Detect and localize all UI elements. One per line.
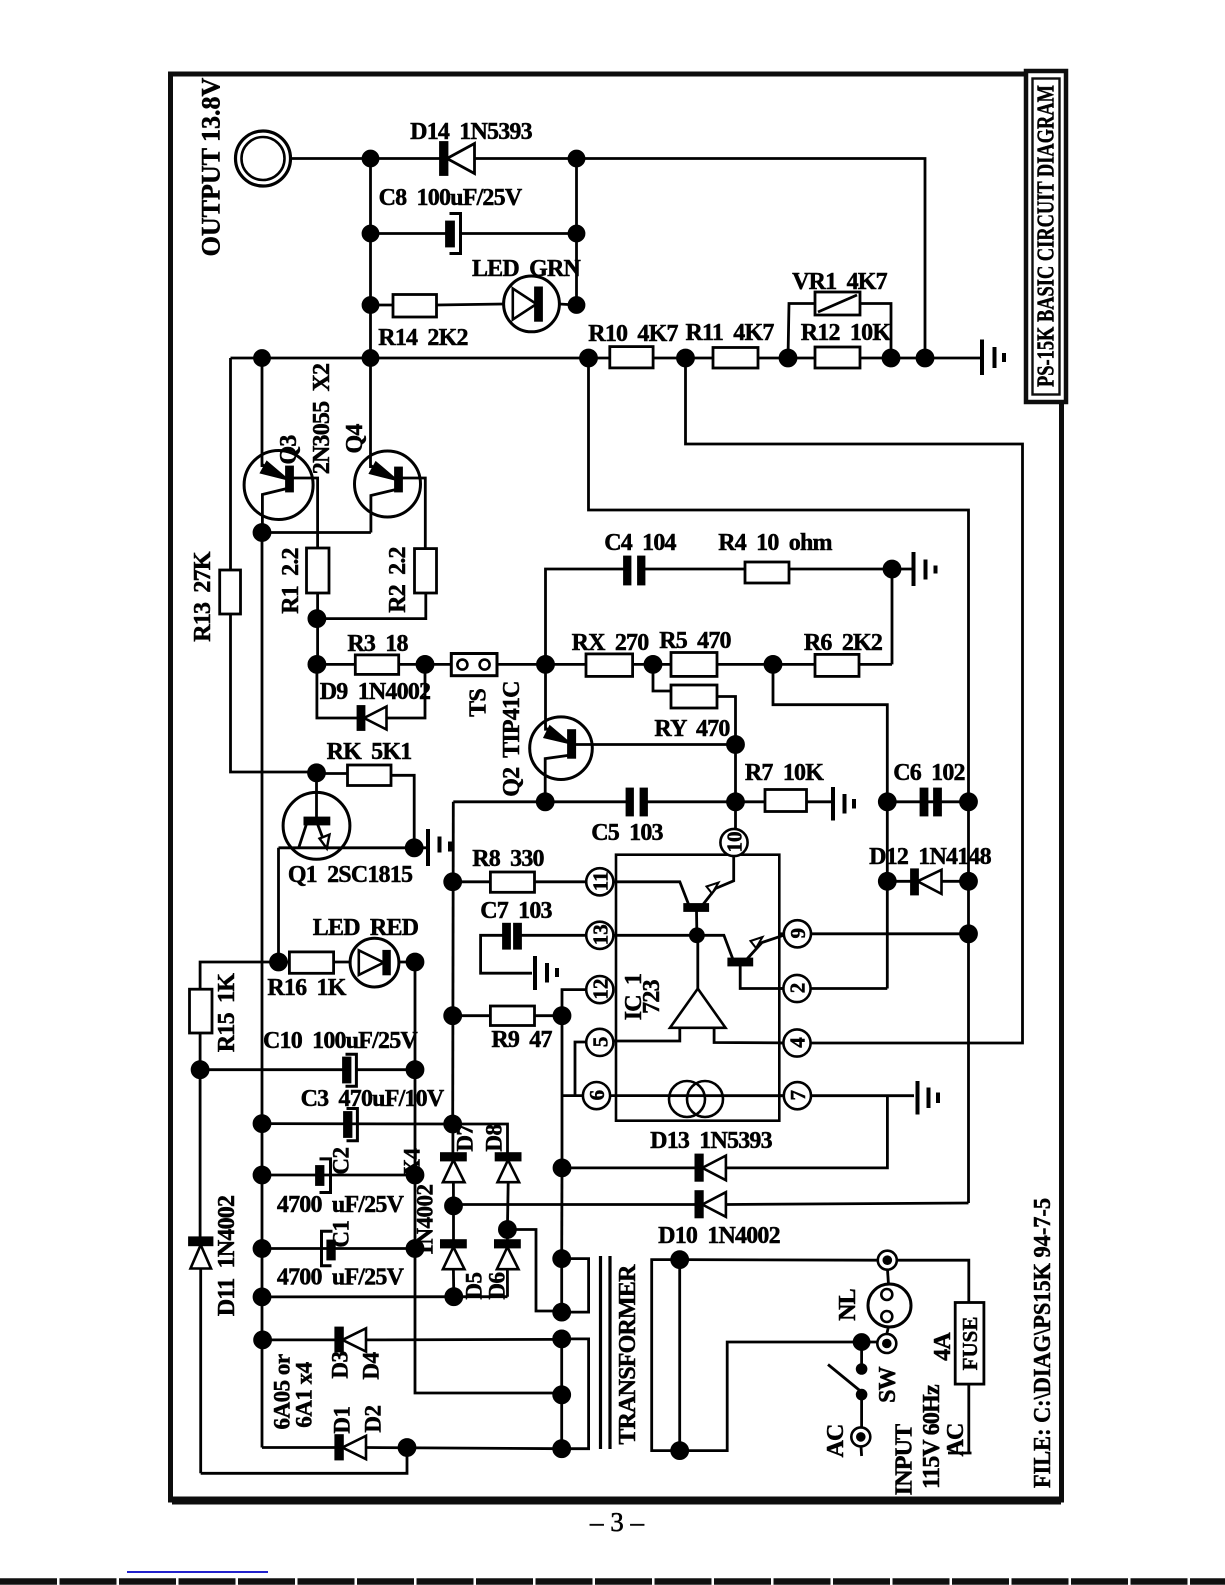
scan artifact bottom bar [0,1578,1225,1585]
resistor R15 [190,989,213,1033]
LED GRN [504,276,560,332]
svg-text:6: 6 [585,1090,609,1101]
svg-text:R11 4K7: R11 4K7 [685,320,774,346]
resistor R14 [393,295,437,318]
diode D11 [190,1238,213,1474]
node junction [363,226,378,241]
resistor RX [586,654,633,677]
resistor R4 [745,562,789,583]
ground pin7 [918,1081,939,1115]
wire D14 to top-right corner [475,159,926,359]
wire pin12 riser x562 [562,990,586,1168]
scan artifact blue line [127,1571,268,1573]
transformer core lines [601,1256,611,1449]
wire VR1 right lead [860,304,891,359]
svg-text:X4: X4 [400,1147,425,1175]
wire R6 right [859,663,892,666]
diode D14 [441,143,475,175]
diode D5 [441,1206,465,1297]
LED RED [350,938,399,987]
wire C7 row [521,934,586,937]
svg-text:SW: SW [875,1366,901,1403]
svg-text:D9 1N4002: D9 1N4002 [320,679,430,705]
node junction center tap [554,1387,570,1403]
svg-text:D6: D6 [485,1272,510,1299]
node junction [765,656,781,672]
svg-text:C8 100uF/25V: C8 100uF/25V [379,185,523,211]
capacitor C10 [344,1054,357,1086]
wire pin6 lead [562,1094,583,1097]
svg-text:R14 2K2: R14 2K2 [378,325,467,351]
wire pin2 row [811,987,888,990]
wire left column down [261,533,264,1448]
wire C4 branch riser [546,569,626,664]
wire RX to R5 [633,663,671,666]
wire C4 to R4 [644,568,745,571]
wire D11 column [199,1070,202,1238]
node junction [569,226,584,241]
svg-text:4700 uF/25V: 4700 uF/25V [277,1265,405,1291]
svg-text:INPUT: INPUT [892,1424,918,1495]
ground Q1 [428,829,450,866]
svg-text:R10 4K7: R10 4K7 [588,321,678,347]
resistor R1 [307,548,330,593]
svg-text:R15 1K: R15 1K [214,973,240,1052]
svg-text:PS-15K BASIC CIRCUIT DIAGRAM: PS-15K BASIC CIRCUIT DIAGRAM [1034,85,1060,387]
node junction D13 left [554,1160,570,1176]
capacitor C3 [345,1109,358,1141]
wire subrail from R11 node down to pin4 riser [686,358,1023,1043]
pin 10 circle [720,829,747,856]
wire R8 row [453,880,586,883]
node junction RK left [309,765,325,781]
svg-text:Q2 TIP41C: Q2 TIP41C [499,681,525,796]
resistor R7 [765,790,807,812]
transformer secondary upper winding [562,1259,589,1313]
svg-text:D13 1N5393: D13 1N5393 [650,1128,772,1154]
diode D3 [263,1328,562,1352]
svg-text:LED GRN: LED GRN [472,256,582,282]
node junction amp output [690,929,703,942]
connector terminal top [878,1251,897,1270]
node junction C10 right [407,1062,423,1078]
svg-text:R13 27K: R13 27K [190,551,216,642]
diode D1 [262,1436,562,1460]
svg-text:5: 5 [588,1037,612,1048]
wire LED RED right [399,961,415,964]
node junction [678,350,694,366]
node junction D3 row left [255,1332,271,1348]
ground C4/R4 [914,552,936,586]
diode D9 loop [317,664,425,729]
svg-text:4700 uF/25V: 4700 uF/25V [277,1192,405,1218]
wire R14 to LED [437,304,504,305]
bridge top bracket wire [453,1124,508,1154]
wire pin5 lead [575,1042,586,1096]
node junction C2 left [254,1167,270,1183]
node junction winding [554,1251,570,1267]
svg-text:10: 10 [723,832,747,853]
svg-text:9: 9 [786,928,810,939]
svg-text:R12 10K: R12 10K [801,320,892,346]
node junction low row left [254,1289,270,1305]
svg-text:Q4: Q4 [342,424,368,454]
node junction primary bottom [672,1443,688,1459]
node junction Q2 collector [537,794,553,810]
svg-text:C10 100uF/25V: C10 100uF/25V [263,1028,418,1054]
capacitor C7 [504,924,521,948]
pin 9 circle [779,920,811,947]
wire TS right [497,663,586,666]
wire R15 to C10 row [199,1033,202,1070]
trimmer VR1 [815,292,860,315]
wire Q1 collector down [277,848,280,962]
resistor R9 [490,1006,534,1026]
svg-text:2N3055 X2: 2N3055 X2 [309,364,335,474]
IC1 box [616,855,779,1121]
svg-text:D4: D4 [359,1351,384,1379]
wire C3 row [262,1122,453,1125]
ground rail end [982,340,1004,376]
transformer secondary lower winding [562,1339,589,1449]
wire LED to right stub [559,304,576,305]
svg-text:12: 12 [588,979,612,1000]
pin 12 circle [586,976,613,1003]
switch SW [828,1342,867,1428]
pin 5 circle [586,1029,613,1056]
IC internal current source circles [610,1081,784,1117]
resistor R2 [415,549,437,593]
main rail wire [231,357,981,360]
node junction TS right [538,656,554,672]
transistor Q4 [355,358,426,549]
svg-text:D3: D3 [328,1351,353,1378]
node junction bridge top [445,1116,461,1132]
node junction primary top [672,1252,688,1268]
svg-text:AC: AC [823,1424,849,1457]
node junction [254,525,270,541]
svg-text:C7 103: C7 103 [480,898,552,924]
svg-text:R16 1K: R16 1K [267,975,346,1001]
svg-text:FUSE: FUSE [958,1317,982,1371]
wire R1/R2 bottom tie [318,593,426,619]
connector NL [868,1284,911,1327]
wire R3 row [317,663,451,666]
wire right column x415 [415,962,562,1393]
node junction R3 right [417,656,433,672]
wire output to D14 node [291,157,442,160]
svg-text:TRANSFORMER: TRANSFORMER [615,1264,641,1445]
svg-text:R8 330: R8 330 [472,846,544,872]
svg-text:13: 13 [588,924,612,945]
wire R9 row [453,1014,562,1017]
fuse FUSE 4A [955,1303,984,1453]
capacitor C8 [447,214,461,254]
svg-text:R2 2.2: R2 2.2 [385,547,411,613]
svg-text:R7 10K: R7 10K [745,760,824,786]
node junction [645,656,661,672]
capacitor C1 [322,1231,335,1266]
resistor RK [317,765,415,848]
svg-text:OUTPUT 13.8V: OUTPUT 13.8V [197,77,226,256]
svg-text:LED RED: LED RED [313,915,419,941]
diode D13 [562,1096,887,1181]
connector terminal bottom [877,1334,896,1353]
diode D10 [454,1192,969,1217]
svg-text:RK 5K1: RK 5K1 [327,739,412,765]
node junction [917,350,933,366]
wire vertical stub D14/C8/LED right [575,159,578,306]
node junction [569,298,584,313]
svg-text:NL: NL [835,1289,861,1321]
node junction [728,794,744,810]
node junction bridge mid [446,1198,462,1214]
resistor R6 [815,654,859,676]
wire SW row [680,1342,878,1451]
connector TS [451,654,497,676]
node junction D1 right [399,1440,415,1456]
wire C1 row [262,1247,415,1250]
node junction [309,611,325,627]
wire base node down to pin10 [734,745,737,830]
wire R7 to ground [807,800,832,803]
connector terminal AC [851,1427,870,1456]
wire R5 to R6 [717,663,815,666]
node junction R8 left [445,874,461,890]
pin 13 circle [586,922,613,949]
wire C7 left to ground [481,935,532,973]
svg-text:C5 103: C5 103 [591,820,663,846]
wire D1 node to D11 column [201,1448,407,1474]
svg-text:R4 10 ohm: R4 10 ohm [718,530,832,556]
wire R14 row left [371,304,394,307]
pin 11 circle [586,868,613,895]
pin 7 circle [779,1082,811,1109]
wire R16 row left corner [200,962,289,989]
wire NL stub top [888,1270,889,1285]
output jack connector [236,131,291,186]
svg-text:C2: C2 [329,1147,354,1174]
resistor RY loop [653,664,736,744]
wire VR1 left lead [788,304,815,359]
svg-text:FILE: C:\DIAG\PS15K 94-7-5: FILE: C:\DIAG\PS15K 94-7-5 [1030,1198,1056,1488]
svg-text:R9 47: R9 47 [491,1027,552,1053]
wire terminal to fuse corner [897,1260,969,1302]
wire pin9 row [811,932,969,935]
node junction D5 bottom [446,1289,462,1305]
node junction [569,151,584,166]
node junction [363,298,378,313]
svg-text:Q3: Q3 [276,435,302,465]
wire C5 row [453,800,627,803]
diode D12 [887,870,968,894]
wire R16 to LED RED [334,961,351,964]
svg-text:D12 1N4148: D12 1N4148 [869,844,991,870]
wire C6 row [887,800,968,803]
ground R7 [833,787,854,821]
svg-text:R3 18: R3 18 [347,631,408,657]
transistor Q1 [283,773,350,859]
node junction winding [554,1441,570,1457]
svg-text:TS: TS [466,689,492,717]
AC terminal underline [948,1452,972,1455]
node junction [780,350,796,366]
node junction SW top [854,1335,869,1350]
IC internal transistor T2 [614,935,784,988]
resistor R3 [355,655,398,675]
wire x452 column [451,802,454,1124]
wire C10 row [200,1068,344,1071]
node junction Q2 base [728,737,744,753]
svg-text:723: 723 [639,979,665,1013]
svg-text:D5: D5 [462,1272,487,1299]
svg-text:C6 102: C6 102 [893,760,965,786]
svg-text:D10 1N4002: D10 1N4002 [658,1223,780,1249]
svg-text:R6 2K2: R6 2K2 [804,630,882,656]
pin 4 circle [779,1029,810,1056]
svg-text:AC: AC [943,1423,969,1456]
wire left column from rail [261,358,264,467]
node junction R3 left [309,656,325,672]
svg-text:D8: D8 [482,1124,507,1151]
svg-text:RY 470: RY 470 [654,716,730,742]
capacitor C6 [921,789,941,815]
diode D8 [496,1154,520,1230]
transistor Q2 [530,664,736,801]
node junction C6 left [879,794,895,810]
svg-text:D14 1N5393: D14 1N5393 [410,119,532,145]
svg-text:RX 270: RX 270 [572,630,650,656]
resistor R8 [490,872,534,892]
resistor R11 [713,348,758,369]
node junction C3 left [254,1116,270,1132]
node junction D8 D6 [499,1222,515,1238]
node junction [581,350,597,366]
resistor R5 [671,653,717,677]
resistor R16 [289,952,333,973]
wire C10 right [356,1068,415,1071]
svg-text:2: 2 [786,983,810,994]
node junction [407,954,423,970]
node junction D12 left [879,873,895,889]
wire R5R6 node to C6 left riser [773,664,887,988]
node junction [363,351,378,366]
svg-text:D1: D1 [330,1406,355,1433]
node junction C2 right [407,1167,423,1183]
ground C7 [535,956,557,990]
title block box [1026,71,1066,402]
transistor Q3 [244,451,318,549]
svg-text:– 3 –: – 3 – [589,1507,645,1537]
wire R4 to ground [789,568,912,571]
wire subrail from R10 node down [589,358,969,1203]
svg-text:1N4002: 1N4002 [413,1184,438,1255]
wire primary top to NL [680,1258,878,1261]
node junction C1 left [254,1241,270,1257]
svg-text:D7: D7 [453,1124,478,1151]
svg-text:VR1 4K7: VR1 4K7 [792,269,888,295]
transformer primary winding [652,1260,680,1451]
wire low row to bridge mid [262,1295,508,1298]
svg-text:6A1 x4: 6A1 x4 [292,1361,317,1427]
node junction R9 left [445,1008,461,1024]
IC internal amplifier triangle [614,935,784,1043]
IC internal transistor T1 [614,856,734,935]
wire pin7 ground row [811,1094,914,1097]
wire vertical output column [369,159,372,359]
svg-text:115V 60Hz: 115V 60Hz [919,1384,945,1489]
node junction D12 right [961,873,977,889]
node junction winding [554,1331,570,1347]
svg-text:11: 11 [588,871,612,891]
wire collector tie [262,531,371,534]
capacitor C5 [627,789,647,815]
capacitor C2 [317,1159,331,1193]
node junction [363,151,378,166]
node junction C10 left [192,1062,208,1078]
node junction [884,561,900,577]
svg-text:C1: C1 [329,1220,354,1247]
diode D7 [441,1124,465,1206]
resistor R12 [815,347,860,368]
svg-text:4: 4 [786,1037,810,1048]
node junction [406,840,422,856]
node junction winding [554,1304,570,1320]
svg-text:D11 1N4002: D11 1N4002 [214,1196,240,1316]
node junction C1 right [407,1241,423,1257]
node junction R9 right [554,1008,570,1024]
wire C2 row [262,1174,415,1177]
svg-text:7: 7 [786,1090,810,1101]
wire bridge output to transformer [507,1230,561,1312]
svg-text:R1 2.2: R1 2.2 [278,548,304,614]
wire NL stub bottom [887,1327,889,1335]
svg-text:C4 104: C4 104 [604,530,676,556]
wire R1 bottom to R3 node [316,593,319,664]
wire D13 riser to transformer [560,1168,563,1259]
resistor R10 [610,347,653,368]
capacitor C4 [625,557,645,584]
node junction C6 right [961,794,977,810]
node junction [883,350,899,366]
svg-text:4A: 4A [930,1332,956,1361]
wire R6 right riser [891,569,894,664]
page frame border [171,74,1062,1501]
node junction [255,351,270,366]
wire Q1 emitter row [279,846,427,849]
svg-text:D2: D2 [361,1405,386,1432]
pin 6 circle [583,1082,610,1109]
resistor R13 [220,358,317,772]
node junction pin9 net [961,926,977,942]
wire C5 to R7 [647,800,766,803]
svg-text:Q1 2SC1815: Q1 2SC1815 [288,862,413,888]
wire C8 row right [461,232,577,235]
pin 2 circle [779,975,810,1002]
svg-text:C3 470uF/10V: C3 470uF/10V [301,1086,445,1112]
node junction Q1 collector / R16 [271,954,287,970]
wire C8 row left [371,232,447,235]
svg-text:R5 470: R5 470 [659,628,731,654]
diode D6 [495,1230,519,1297]
